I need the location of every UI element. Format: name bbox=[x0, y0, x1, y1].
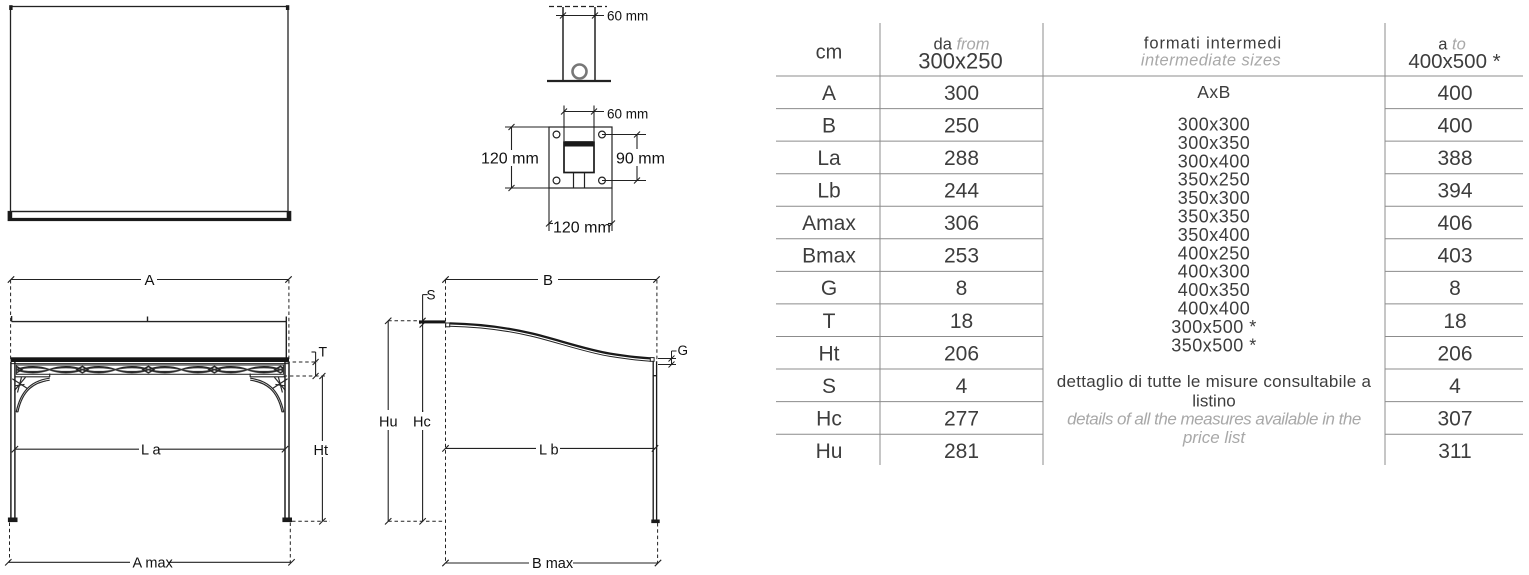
svg-text:350x300: 350x300 bbox=[1178, 188, 1251, 208]
bolt hole top-left bbox=[553, 131, 560, 138]
post section square bbox=[564, 142, 594, 173]
svg-text:G: G bbox=[678, 343, 689, 358]
dim G bbox=[658, 351, 677, 368]
roof curve top bbox=[450, 323, 651, 358]
plan dim 90mm right bbox=[602, 132, 646, 184]
plan dim 120mm left bbox=[505, 124, 549, 191]
svg-text:281: 281 bbox=[944, 440, 979, 463]
roof curve start cap bbox=[446, 323, 450, 327]
svg-text:Bmax: Bmax bbox=[802, 245, 856, 268]
svg-text:8: 8 bbox=[956, 277, 968, 300]
post elevation body bbox=[563, 7, 595, 81]
right post bbox=[285, 362, 289, 518]
roof curve underside bbox=[450, 326, 651, 361]
svg-text:400: 400 bbox=[1437, 82, 1472, 105]
beam lower line bbox=[11, 363, 289, 365]
svg-text:A: A bbox=[822, 82, 836, 105]
price list note bbox=[1057, 372, 1372, 447]
post base line bbox=[547, 80, 611, 82]
post elevation dashed top line bbox=[549, 6, 607, 8]
svg-text:120 mm: 120 mm bbox=[481, 151, 539, 168]
svg-text:B: B bbox=[543, 272, 553, 289]
side post base plate bbox=[651, 520, 659, 524]
dim Amax extensions dashed bbox=[10, 523, 291, 563]
front view left extension dashed bbox=[10, 280, 12, 360]
svg-text:300x300: 300x300 bbox=[1178, 115, 1251, 135]
svg-text:350x350: 350x350 bbox=[1178, 207, 1251, 227]
svg-text:250: 250 bbox=[944, 114, 979, 137]
bolt hole bottom-right bbox=[599, 177, 606, 184]
svg-text:A max: A max bbox=[133, 556, 174, 570]
canopy right edge bbox=[285, 322, 287, 358]
right post base plate bbox=[282, 518, 292, 523]
svg-text:403: 403 bbox=[1437, 245, 1472, 268]
svg-text:A: A bbox=[145, 272, 155, 289]
post elevation dim 60mm bbox=[556, 13, 604, 19]
svg-text:400x300: 400x300 bbox=[1178, 262, 1251, 282]
dim Hu bbox=[385, 318, 391, 525]
svg-text:Hu: Hu bbox=[379, 415, 398, 431]
bolt hole top-right bbox=[599, 131, 606, 138]
svg-text:311: 311 bbox=[1438, 440, 1471, 463]
canopy top edge bbox=[12, 316, 287, 322]
svg-text:Lb: Lb bbox=[817, 180, 840, 203]
svg-text:B max: B max bbox=[532, 556, 574, 570]
dim Amax bbox=[5, 559, 295, 565]
svg-text:406: 406 bbox=[1437, 212, 1472, 235]
svg-text:60 mm: 60 mm bbox=[607, 9, 648, 24]
svg-text:price list: price list bbox=[1182, 428, 1247, 447]
svg-text:400x350: 400x350 bbox=[1178, 280, 1251, 300]
svg-text:intermediate sizes: intermediate sizes bbox=[1141, 52, 1281, 70]
dim Ht bbox=[319, 373, 325, 525]
plate plan dim 60mm bbox=[561, 106, 604, 142]
svg-text:details of all the measures av: details of all the measures available in… bbox=[1067, 410, 1361, 429]
svg-text:S: S bbox=[822, 375, 836, 398]
svg-text:400x250: 400x250 bbox=[1178, 243, 1251, 263]
svg-text:18: 18 bbox=[1443, 310, 1466, 333]
front view right extension dashed bbox=[288, 280, 290, 361]
svg-text:350x400: 350x400 bbox=[1178, 225, 1251, 245]
dim Lb bbox=[442, 445, 658, 451]
svg-text:dettaglio di tutte le misure c: dettaglio di tutte le misure consultabil… bbox=[1057, 372, 1372, 391]
svg-text:300x350: 300x350 bbox=[1178, 133, 1251, 153]
svg-text:G: G bbox=[821, 277, 837, 300]
table data rows bbox=[802, 82, 1473, 463]
svg-text:8: 8 bbox=[1449, 277, 1461, 300]
svg-text:4: 4 bbox=[1449, 375, 1461, 398]
svg-text:350x250: 350x250 bbox=[1178, 170, 1251, 190]
svg-text:400: 400 bbox=[1437, 114, 1472, 137]
frieze lattice band bbox=[16, 365, 283, 374]
base plate plan square bbox=[549, 127, 612, 188]
dim Bmax bbox=[442, 560, 661, 566]
svg-text:La: La bbox=[817, 147, 841, 170]
left post base plate bbox=[8, 518, 18, 523]
dim S bracket bbox=[420, 295, 428, 412]
front view dim A bbox=[8, 276, 292, 282]
table grid bbox=[776, 23, 1523, 465]
left post bbox=[11, 362, 15, 518]
svg-text:307: 307 bbox=[1437, 408, 1472, 431]
svg-text:300: 300 bbox=[944, 82, 979, 105]
plan dim 120mm bottom bbox=[546, 188, 615, 231]
dim T dashed extensions bbox=[284, 362, 327, 376]
svg-text:L a: L a bbox=[141, 443, 162, 459]
roof curve end cap bbox=[650, 358, 654, 362]
plate stem bbox=[574, 173, 585, 189]
svg-text:300x400: 300x400 bbox=[1178, 151, 1251, 171]
Hu Hc bottom dashed bbox=[388, 520, 444, 522]
side post bbox=[653, 361, 656, 519]
svg-text:288: 288 bbox=[944, 147, 979, 170]
svg-text:Amax: Amax bbox=[802, 212, 856, 235]
svg-text:244: 244 bbox=[944, 180, 979, 203]
svg-text:Hu: Hu bbox=[816, 440, 843, 463]
dim Hc bbox=[419, 410, 425, 525]
side beam end bar bbox=[419, 320, 446, 323]
svg-text:Ht: Ht bbox=[314, 443, 329, 459]
svg-text:350x500 *: 350x500 * bbox=[1171, 335, 1257, 355]
svg-text:cm: cm bbox=[816, 41, 843, 63]
svg-text:388: 388 bbox=[1437, 147, 1472, 170]
svg-text:Ht: Ht bbox=[819, 342, 840, 365]
svg-text:4: 4 bbox=[956, 375, 968, 398]
awning bottom bar bbox=[8, 212, 291, 221]
svg-text:AxB: AxB bbox=[1197, 82, 1231, 102]
svg-text:206: 206 bbox=[1437, 342, 1472, 365]
svg-text:T: T bbox=[319, 344, 328, 360]
svg-text:394: 394 bbox=[1437, 180, 1472, 203]
awning closed front view box bbox=[11, 7, 289, 212]
svg-text:60 mm: 60 mm bbox=[607, 106, 648, 121]
dim Hu top dashed bbox=[388, 320, 419, 322]
svg-text:Hc: Hc bbox=[816, 408, 842, 431]
Ht base dashed link bbox=[292, 520, 330, 522]
svg-text:277: 277 bbox=[944, 408, 979, 431]
table header bbox=[816, 34, 1501, 73]
svg-text:400x400: 400x400 bbox=[1178, 299, 1251, 319]
svg-text:120 mm: 120 mm bbox=[553, 220, 611, 237]
bolt hole bottom-left bbox=[553, 177, 560, 184]
side view right extension dashed bbox=[656, 280, 658, 360]
dim T bbox=[312, 352, 319, 379]
side base dashed extension bbox=[657, 523, 659, 563]
svg-text:400x500 *: 400x500 * bbox=[1408, 50, 1500, 73]
svg-text:T: T bbox=[823, 310, 836, 333]
svg-text:B: B bbox=[822, 114, 836, 137]
post bolt circle bbox=[573, 65, 587, 79]
side view left extension dashed bbox=[445, 280, 447, 563]
dim La bbox=[12, 446, 289, 452]
svg-text:S: S bbox=[427, 288, 436, 303]
svg-text:306: 306 bbox=[944, 212, 979, 235]
left corner bracket bbox=[12, 374, 50, 413]
svg-text:300x250: 300x250 bbox=[918, 48, 1002, 73]
svg-text:90 mm: 90 mm bbox=[616, 150, 665, 167]
svg-text:Hc: Hc bbox=[413, 415, 431, 431]
svg-text:300x500 *: 300x500 * bbox=[1171, 317, 1257, 337]
svg-text:formati intermedi: formati intermedi bbox=[1144, 34, 1282, 52]
side view dim B bbox=[442, 276, 659, 282]
right corner bracket bbox=[250, 374, 288, 413]
svg-text:listino: listino bbox=[1192, 392, 1235, 411]
svg-text:253: 253 bbox=[944, 245, 979, 268]
intermediate sizes cell bbox=[1171, 82, 1257, 355]
svg-text:18: 18 bbox=[950, 310, 973, 333]
svg-text:L b: L b bbox=[539, 443, 559, 459]
front beam bbox=[11, 357, 289, 362]
svg-text:206: 206 bbox=[944, 342, 979, 365]
